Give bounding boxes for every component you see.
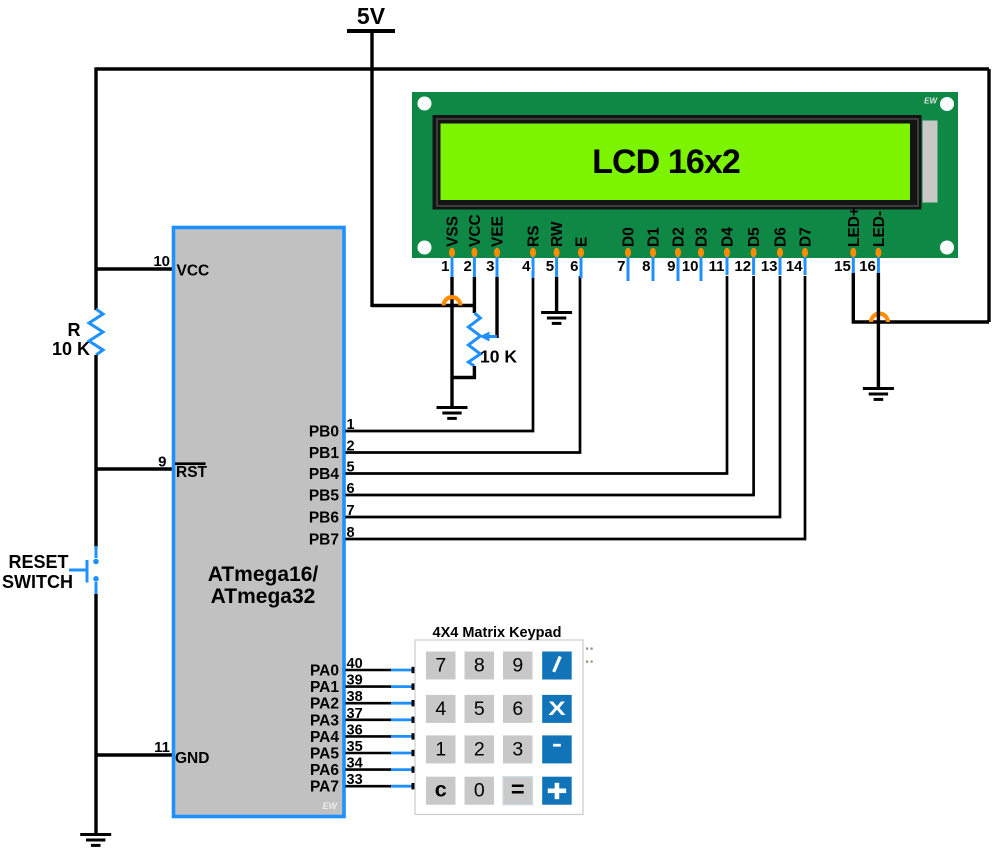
svg-text:VEE: VEE xyxy=(490,216,507,247)
wire MCU PA1 (pin 39) to keypad row/col xyxy=(346,685,392,688)
svg-text:RST: RST xyxy=(176,464,208,481)
key 7 xyxy=(426,652,456,680)
wire MCU PB1 (pin 2) to LCD E xyxy=(346,276,581,453)
key 5 xyxy=(465,695,495,723)
svg-text:3: 3 xyxy=(512,738,523,760)
LCD pads (orange) xyxy=(449,248,881,258)
wire pot bottom to VSS net xyxy=(452,366,474,378)
pin 7 PB6 label xyxy=(309,503,355,527)
wire MCU PA7 (pin 33) to keypad row/col xyxy=(346,785,392,788)
key + xyxy=(542,777,572,805)
wire LCD pin 3 stub xyxy=(496,257,499,278)
svg-text:RESET: RESET xyxy=(8,552,68,572)
key 1 xyxy=(426,735,456,763)
svg-text:D7: D7 xyxy=(798,227,815,247)
pin 5 PB4 label xyxy=(309,460,355,484)
keypad terminal for PA6 xyxy=(412,766,418,772)
key = xyxy=(503,776,533,805)
svg-text:D3: D3 xyxy=(694,227,711,247)
svg-text:6: 6 xyxy=(512,698,523,720)
svg-text:PA3: PA3 xyxy=(310,712,339,729)
svg-text:VCC: VCC xyxy=(467,214,484,247)
key 3 xyxy=(503,735,533,763)
keypad terminal for PA4 xyxy=(412,733,418,739)
key X xyxy=(542,695,572,723)
wire MCU PB7 (pin 8) to LCD D7 xyxy=(346,276,806,539)
svg-text:EW: EW xyxy=(323,801,339,811)
wire LCD pin 14 stub xyxy=(804,257,807,275)
svg-text:VCC: VCC xyxy=(177,263,210,280)
LCD screen glass xyxy=(441,124,911,201)
svg-text:EW: EW xyxy=(924,97,938,106)
node GND junction / wire to MCU pin 11 xyxy=(96,753,172,756)
svg-text:1: 1 xyxy=(435,738,446,760)
key c xyxy=(426,777,456,805)
wire 5V feed to VCC pin2 (horizontal) xyxy=(372,304,474,307)
svg-text:PA0: PA0 xyxy=(310,663,339,680)
key / xyxy=(542,652,572,680)
svg-text:7: 7 xyxy=(435,654,446,676)
LCD mounting holes xyxy=(418,97,955,255)
pin 10 VCC label xyxy=(153,253,209,280)
keypad terminal for PA1 xyxy=(412,683,418,689)
potentiometer RV1 10K xyxy=(473,277,476,313)
svg-text:PB1: PB1 xyxy=(309,445,340,462)
svg-text:8: 8 xyxy=(347,525,355,541)
ground bottom-left xyxy=(80,835,111,846)
pin 38 PA2 label xyxy=(310,689,363,713)
svg-text:16: 16 xyxy=(859,258,876,275)
svg-text:PB6: PB6 xyxy=(309,510,340,527)
key - xyxy=(542,735,572,763)
wire MCU PB5 (pin 6) to LCD D5 xyxy=(346,276,754,495)
svg-text:VSS: VSS xyxy=(445,216,462,247)
svg-text:5: 5 xyxy=(546,258,554,275)
wire LCD pin 9 stub xyxy=(677,257,680,281)
pin 35 PA5 label xyxy=(310,739,363,763)
svg-text:8: 8 xyxy=(642,258,650,275)
svg-text:5: 5 xyxy=(474,698,485,720)
svg-text:9: 9 xyxy=(512,654,523,676)
svg-text:D1: D1 xyxy=(646,227,663,247)
wire MCU PA4 (pin 36) to keypad row/col xyxy=(346,735,392,738)
svg-text:2: 2 xyxy=(347,439,355,455)
wire LCD pin 8 stub xyxy=(652,257,655,281)
wire left rail top segment (5V rail to resistor R) xyxy=(94,67,97,310)
pin 39 PA1 label xyxy=(310,673,363,697)
wire MCU PA6 (pin 34) to keypad row/col xyxy=(346,768,392,771)
svg-text:4: 4 xyxy=(522,258,531,275)
wire VSS (pin1) to ground xyxy=(450,277,453,407)
svg-text:ATmega16/: ATmega16/ xyxy=(208,563,319,586)
svg-text:33: 33 xyxy=(347,772,363,788)
svg-text:PA7: PA7 xyxy=(310,779,339,796)
label RESET SWITCH xyxy=(2,552,73,592)
wire LCD pin 11 stub xyxy=(726,257,729,275)
LCD module U2 PCB xyxy=(412,92,958,258)
svg-text:PB5: PB5 xyxy=(309,488,340,505)
svg-text:PB0: PB0 xyxy=(309,424,339,441)
wire MCU PB4 (pin 5) to LCD D4 xyxy=(346,276,728,474)
svg-text:6: 6 xyxy=(347,481,355,497)
node RST junction / wire to MCU pin 9 xyxy=(96,467,172,470)
svg-text:=: = xyxy=(511,776,525,802)
wire LCD pin 13 stub xyxy=(779,257,782,275)
power supply 5V xyxy=(347,3,395,31)
svg-text:R: R xyxy=(68,320,81,340)
svg-text:3: 3 xyxy=(486,258,494,275)
svg-text:D0: D0 xyxy=(621,227,638,247)
pin 2 PB1 label xyxy=(309,439,355,463)
svg-text:SWITCH: SWITCH xyxy=(2,572,73,592)
key 6 xyxy=(503,695,533,723)
svg-text:14: 14 xyxy=(786,258,803,275)
svg-text:15: 15 xyxy=(834,258,851,275)
wire RW (pin5) to ground xyxy=(555,277,558,312)
svg-text:ATmega32: ATmega32 xyxy=(211,585,316,608)
key 4 xyxy=(426,695,456,723)
svg-text:PB4: PB4 xyxy=(309,466,340,483)
svg-text:2: 2 xyxy=(464,258,472,275)
svg-text:X: X xyxy=(548,699,566,720)
svg-text:35: 35 xyxy=(347,739,363,755)
keypad terminal for PA3 xyxy=(412,717,418,723)
svg-text:40: 40 xyxy=(347,656,363,672)
svg-text:PA1: PA1 xyxy=(310,679,339,696)
wire left rail middle segment (R to reset switch) xyxy=(94,355,97,547)
wire MCU PB0 (pin 1) to LCD RS xyxy=(346,276,534,431)
svg-text:34: 34 xyxy=(347,756,363,772)
wire hop (LED- over LED+) xyxy=(871,314,888,322)
pin 34 PA6 label xyxy=(310,756,363,780)
pin 33 PA7 label xyxy=(310,772,363,796)
keypad KP1 panel xyxy=(415,640,583,815)
svg-text:7: 7 xyxy=(347,503,355,519)
wire MCU PB6 (pin 7) to LCD D6 xyxy=(346,276,781,517)
LCD contrast strip xyxy=(923,121,938,203)
reset switch S1 xyxy=(69,546,99,594)
wire MCU PA2 (pin 38) to keypad row/col xyxy=(346,702,392,705)
wire MCU PA0 (pin 40) to keypad row/col xyxy=(346,669,392,672)
wire LED+ (pin15) to 5V right rail xyxy=(853,273,989,322)
svg-text:c: c xyxy=(435,778,447,802)
wire MCU PA5 (pin 35) to keypad row/col xyxy=(346,752,392,755)
wire LCD pin 1 stub xyxy=(451,257,454,278)
pin 1 PB0 label xyxy=(309,417,355,441)
svg-text:8: 8 xyxy=(474,654,485,676)
svg-text:1: 1 xyxy=(347,417,355,433)
svg-text:4X4 Matrix Keypad: 4X4 Matrix Keypad xyxy=(433,625,562,641)
svg-text:D2: D2 xyxy=(671,227,688,247)
svg-text:RS: RS xyxy=(526,225,543,247)
svg-text:5V: 5V xyxy=(357,3,386,29)
keypad terminal for PA5 xyxy=(412,750,418,756)
svg-text:LED+: LED+ xyxy=(846,207,863,247)
wire left rail bottom segment (switch to ground) xyxy=(94,594,97,835)
wire LCD pin 16 stub xyxy=(877,257,880,274)
key 2 xyxy=(465,735,495,763)
svg-text:PA6: PA6 xyxy=(310,762,339,779)
node VCC junction / wire to MCU pin 10 xyxy=(96,267,172,270)
wire right rail to LED+ xyxy=(987,69,990,322)
resistor R1 10K xyxy=(89,309,103,355)
svg-text:RW: RW xyxy=(549,221,566,247)
svg-text:12: 12 xyxy=(734,258,751,275)
svg-text:9: 9 xyxy=(158,454,166,471)
keypad terminal for PA7 xyxy=(412,783,418,789)
svg-text:10 K: 10 K xyxy=(480,347,517,367)
pin 8 PB7 label xyxy=(309,525,355,549)
wire MCU PA3 (pin 37) to keypad row/col xyxy=(346,718,392,721)
svg-text:10 K: 10 K xyxy=(52,339,90,359)
pin 6 PB5 label xyxy=(309,481,355,505)
svg-text:PB7: PB7 xyxy=(309,532,339,549)
key 8 xyxy=(465,652,495,680)
svg-text:10: 10 xyxy=(682,258,699,275)
keypad terminal for PA2 xyxy=(412,700,418,706)
wire 5V vertical drop xyxy=(370,33,373,307)
ground RW xyxy=(541,313,572,324)
svg-text:D5: D5 xyxy=(746,227,763,247)
wire LCD pin 2 stub xyxy=(473,257,476,278)
LCD screen bezel xyxy=(433,115,922,210)
svg-text:6: 6 xyxy=(570,258,578,275)
pin 37 PA3 label xyxy=(310,706,363,730)
wire LCD pin 5 stub xyxy=(555,257,558,278)
svg-text:5: 5 xyxy=(347,460,355,476)
pin 11 GND label xyxy=(154,739,209,767)
wire LCD pin 10 stub xyxy=(700,257,703,281)
svg-text:9: 9 xyxy=(667,258,675,275)
ground LED- xyxy=(863,389,894,400)
key 0 xyxy=(465,777,495,805)
svg-text:LCD 16x2: LCD 16x2 xyxy=(592,143,740,181)
pin 9 RST label xyxy=(158,454,207,482)
pin 40 PA0 label xyxy=(310,656,363,680)
svg-text:E: E xyxy=(574,237,591,247)
svg-text:PA5: PA5 xyxy=(310,746,339,763)
svg-text:D6: D6 xyxy=(773,227,790,247)
wire hop (VSS over 5V feed) xyxy=(444,297,461,305)
wire VEE (pin3) to pot wiper xyxy=(495,277,498,338)
svg-text:13: 13 xyxy=(761,258,778,275)
wire LCD pin 15 stub xyxy=(852,257,855,274)
keypad terminal for PA0 xyxy=(412,667,418,673)
svg-text:11: 11 xyxy=(154,739,170,756)
ground VSS xyxy=(437,408,468,419)
svg-text:37: 37 xyxy=(347,706,363,722)
key 9 xyxy=(503,652,533,680)
wire LCD pin 12 stub xyxy=(752,257,755,275)
svg-text:GND: GND xyxy=(175,750,209,767)
svg-text:PA4: PA4 xyxy=(310,729,339,746)
wire LED- (pin16) to ground xyxy=(877,273,880,388)
svg-text:LED-: LED- xyxy=(871,211,888,247)
wire LCD pin 7 stub xyxy=(627,257,630,281)
pin 36 PA4 label xyxy=(310,722,363,746)
svg-text:38: 38 xyxy=(347,689,363,705)
wire LCD pin 4 stub xyxy=(532,257,535,278)
svg-text:0: 0 xyxy=(474,780,485,802)
svg-text:4: 4 xyxy=(435,698,446,720)
wire LCD pin 6 stub xyxy=(580,257,583,278)
stray dots (decor near keypad) xyxy=(586,648,593,663)
wire top 5V rail xyxy=(96,67,989,70)
svg-text:10: 10 xyxy=(153,253,170,270)
svg-text:D4: D4 xyxy=(720,227,737,247)
svg-text:36: 36 xyxy=(347,722,363,738)
svg-text:11: 11 xyxy=(709,258,725,275)
svg-text:1: 1 xyxy=(441,258,449,275)
svg-text:7: 7 xyxy=(617,258,625,275)
svg-text:PA2: PA2 xyxy=(310,696,339,713)
microcontroller U1 ATmega16/ATmega32 xyxy=(174,228,345,817)
svg-text:39: 39 xyxy=(347,673,363,689)
svg-text:2: 2 xyxy=(474,738,485,760)
